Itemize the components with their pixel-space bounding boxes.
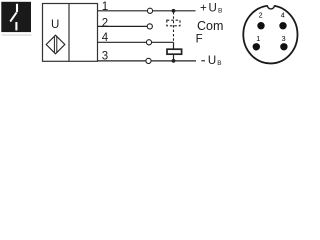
resistor (load): [167, 49, 182, 54]
svg-text:B: B: [217, 60, 221, 66]
svg-text:4: 4: [102, 32, 109, 44]
svg-text:+: +: [200, 3, 207, 15]
svg-text:2: 2: [102, 17, 108, 29]
label - UB: [201, 60, 205, 62]
svg-text:F: F: [196, 33, 203, 45]
svg-text:U: U: [51, 19, 59, 31]
connector pin 4: [279, 22, 286, 29]
junction dot on wire 1: [172, 9, 176, 13]
terminal circle wire 4: [146, 40, 151, 45]
wire 3 (-UB): [98, 60, 197, 62]
terminal circle wire 2: [147, 24, 152, 29]
junction dot on wire 3: [172, 59, 176, 63]
svg-text:B: B: [218, 7, 222, 14]
svg-text:4: 4: [281, 10, 285, 19]
lead resistor to wire 3: [173, 55, 175, 61]
svg-text:U: U: [208, 55, 216, 66]
switch contact glyph: [10, 4, 17, 31]
svg-text:1: 1: [102, 1, 108, 13]
sensor box divider: [68, 4, 70, 62]
sensor box U1: [43, 4, 98, 62]
svg-text:3: 3: [282, 34, 286, 43]
terminal circle wire 3: [146, 58, 151, 63]
dashed drop from wire 1 to wire 4: [173, 12, 175, 42]
M12 connector face: [243, 6, 297, 64]
wire 1 (+UB): [98, 10, 196, 12]
connector pin 2: [257, 22, 264, 29]
transducer double bar: [54, 36, 56, 53]
connector pin 1: [253, 43, 260, 50]
terminal circle wire 1: [147, 8, 152, 13]
connector pin 3: [280, 43, 287, 50]
dashed load box: [167, 20, 180, 26]
svg-text:U: U: [209, 3, 217, 15]
svg-text:Com: Com: [197, 19, 223, 33]
svg-text:1: 1: [256, 34, 260, 43]
svg-text:3: 3: [102, 51, 108, 63]
switching-output icon (black box): [1, 2, 31, 32]
keyway notch: [267, 4, 274, 8]
lead wire 4 to resistor: [173, 42, 175, 49]
wire 4 (F): [98, 41, 174, 43]
wire 2 (Com): [98, 25, 153, 27]
transducer diamond: [46, 35, 65, 54]
svg-text:2: 2: [259, 10, 263, 19]
faint underline below icon: [2, 34, 32, 36]
